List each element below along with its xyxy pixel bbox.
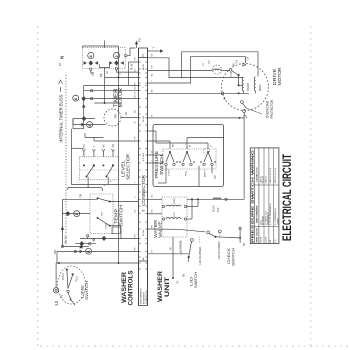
wire loop inner (148, 57, 246, 83)
internal timer buss (dotted line) (65, 75, 67, 246)
wire row 251.4 with contact B (57, 250, 139, 252)
temp switch outputs (110, 201, 139, 203)
svg-text:BU: BU (151, 194, 153, 197)
svg-text:BU 16: BU 16 (65, 236, 68, 243)
svg-text:BU-W: BU-W (130, 63, 133, 70)
svg-text:FULL: FULL (185, 170, 187, 176)
svg-text:N: N (141, 54, 145, 56)
line switch (dashed) (58, 266, 86, 304)
wire row 148.3 (72, 147, 84, 149)
svg-text:BU: BU (134, 209, 136, 212)
svg-text:PK: PK (170, 246, 172, 250)
level selector outputs down (87, 177, 89, 188)
wire arrow right of connector (148, 50, 161, 52)
svg-text:SWITCH: SWITCH (118, 205, 123, 226)
svg-text:16 GA: 16 GA (142, 229, 145, 236)
wire row y93.3 (148, 92, 250, 94)
svg-text:CAB 15, 22 & 32: CAB 15, 22 & 32 (269, 167, 272, 183)
svg-text:GY: GY (151, 249, 153, 253)
svg-text:BK: BK (99, 73, 103, 77)
overload protector contacts (241, 101, 244, 104)
svg-text:BA: BA (223, 96, 226, 100)
svg-text:IN WASHER: IN WASHER (142, 292, 145, 304)
svg-text:ELECTRICAL CIRCUIT: ELECTRICAL CIRCUIT (280, 153, 294, 241)
timer contact 6 (circled) (73, 95, 79, 101)
svg-text:LID CLOSED: LID CLOSED (217, 241, 221, 259)
svg-text:SWITCH: SWITCH (84, 281, 89, 300)
svg-text:SWITCH: SWITCH (159, 155, 164, 175)
wire row y117.9 (148, 117, 245, 119)
level selector stubs (83, 152, 85, 157)
svg-text:LID OPEN: LID OPEN (178, 241, 182, 254)
svg-text:INTERNAL TIMER BUSS: INTERNAL TIMER BUSS (59, 95, 64, 143)
svg-text:K 8 15 B: K 8 15 B (143, 152, 145, 161)
svg-text:PU: PU (275, 239, 277, 242)
svg-text:CAB 14,: CAB 14, (264, 175, 267, 183)
wire loop outer (181, 52, 258, 77)
svg-text:BU: BU (151, 73, 153, 76)
connector bottom label box (139, 261, 148, 306)
svg-text:TERMINALS): TERMINALS) (267, 212, 270, 225)
suds feed wire (187, 198, 244, 200)
suds solenoid (213, 198, 221, 199)
svg-text:RD: RD (134, 234, 136, 238)
svg-text:BK: BK (69, 297, 72, 301)
svg-text:3-CUP: 3-CUP (168, 169, 170, 176)
lid switch pivots (207, 231, 210, 234)
svg-text:LID: LID (190, 276, 194, 286)
svg-text:SWITCH: SWITCH (194, 272, 198, 288)
wires rails to pressure box (148, 154, 164, 156)
check wire right (216, 237, 241, 238)
valve outputs right (187, 206, 198, 208)
start winding (242, 77, 243, 91)
svg-text:WIRE COLOR: WIRE COLOR (257, 228, 259, 243)
terminal under cam 4 (90, 68, 92, 70)
level selector box (dotted) (80, 157, 119, 180)
svg-text:8: 8 (142, 210, 146, 212)
wire row y72.1 (116, 70, 138, 72)
svg-text:BU-W: BU-W (134, 91, 136, 98)
connector top box (139, 48, 148, 58)
wire row y124.6 to timer motor (73, 124, 106, 126)
pressure switch enclosure (153, 124, 224, 186)
svg-text:BU-W: BU-W (143, 64, 145, 70)
motor internal node (238, 84, 240, 86)
svg-text:GY: GY (117, 71, 121, 75)
svg-text:BK: BK (243, 242, 246, 246)
svg-text:RD: RD (93, 238, 96, 242)
wire row y103 (94, 102, 118, 104)
svg-text:COLD: COLD (174, 198, 176, 204)
svg-text:MAIN: MAIN (258, 84, 262, 91)
svg-text:PK: PK (83, 144, 86, 148)
svg-text:BU-W: BU-W (265, 237, 267, 243)
svg-text:B: B (87, 250, 91, 253)
svg-text:PU: PU (138, 38, 142, 42)
wire row y62 (129, 61, 139, 63)
svg-text:GY: GY (151, 150, 153, 154)
pressure micro circle (203, 148, 209, 154)
lid switch 1 (191, 239, 194, 242)
wire cam4 down (90, 71, 92, 74)
wire from overload down (243, 112, 245, 199)
svg-text:SUDS: SUDS (213, 205, 216, 212)
svg-text:RD-W: RD-W (260, 237, 262, 243)
svg-text:PROTECTOR: PROTECTOR (270, 99, 274, 118)
vertical cam wire x83.7 (83, 86, 85, 129)
svg-text:6 (TO 10 TERMINALS): 6 (TO 10 TERMINALS) (269, 203, 272, 225)
cam follower row 124.6 (81, 123, 85, 127)
timer cam 2 (114, 60, 119, 65)
fork wire (100, 65, 110, 68)
svg-text:BR-W/BR: BR-W/BR (263, 215, 265, 225)
svg-text:L1: L1 (53, 300, 58, 305)
terminal under cam 2 (115, 67, 117, 69)
svg-text:HOT: HOT (174, 211, 176, 216)
svg-text:WIRE NUMBERS: WIRE NUMBERS (257, 205, 259, 223)
svg-text:RD: RD (151, 209, 153, 213)
svg-text:CONTROLS: CONTROLS (128, 270, 135, 306)
svg-text:SELECTOR: SELECTOR (126, 153, 131, 180)
svg-text:LID CLOSED: LID CLOSED (198, 247, 202, 265)
cold solenoid (162, 205, 164, 207)
wire to connector pin (arrow) (127, 48, 136, 56)
svg-text:CONN BLOCK: CONN BLOCK (146, 290, 148, 304)
wire row y199.3 (valve feed) (148, 198, 163, 200)
wire row y98.6 with terminal (86, 98, 139, 100)
svg-text:Y: Y (151, 47, 155, 49)
cam follower on x83.7 (82, 104, 86, 108)
dotted guides lid switch (180, 240, 182, 256)
svg-text:VLV: VLV (217, 207, 220, 212)
main vertical wire (118, 46, 120, 263)
temp switch contacts (97, 197, 99, 199)
svg-text:BK: BK (53, 250, 57, 254)
wire row y77.4 (105, 76, 139, 78)
svg-text:16 GA: 16 GA (142, 115, 145, 122)
svg-text:MOTOR: MOTOR (277, 67, 282, 86)
svg-text:GY: GY (176, 280, 179, 284)
svg-text:PRESSURE SWITCH WIRING: PRESSURE SWITCH WIRING (251, 149, 255, 243)
terminal right of contact 2 (125, 55, 127, 57)
water valve box (dotted) (162, 197, 187, 237)
line switch contacts (66, 269, 68, 271)
svg-text:COLD: COLD (105, 223, 107, 229)
svg-text:OR: OR (151, 65, 153, 69)
svg-text:CHECK: CHECK (227, 247, 231, 264)
thermo element box (112, 227, 121, 233)
svg-text:PULL: PULL (76, 275, 79, 282)
elbow wire to row y128.7 (73, 128, 84, 130)
svg-text:BK: BK (183, 273, 186, 277)
wiring legend table (250, 148, 279, 244)
svg-text:EMPTY: EMPTY (204, 169, 206, 177)
hot solenoid (162, 218, 164, 220)
svg-text:CCW: CCW (231, 71, 233, 77)
timer cam 6 (81, 96, 86, 101)
valve left feeds (148, 213, 163, 215)
timer cam 4 (89, 60, 94, 65)
temp switch box (dotted) (90, 194, 113, 233)
contact 4 (circled) (88, 53, 94, 59)
vertical wire x62.4 (61, 199, 63, 246)
svg-text:THB 10, 24 & 34: THB 10, 24 & 34 (275, 167, 277, 183)
svg-text:SWITCH: SWITCH (232, 248, 236, 266)
wire stub (104, 41, 106, 48)
thermal protector (dashed circle) (213, 65, 222, 74)
pressure switch feeds (148, 140, 171, 142)
timer contact 8 (circled) (87, 122, 93, 128)
wire timer motor to connector (121, 117, 139, 119)
svg-text:CONNECTOR: CONNECTOR (141, 175, 146, 206)
wire U loop bottom (68, 188, 103, 192)
wire row 238.6 (80, 238, 139, 240)
timer contact 1 (circled) (74, 211, 80, 217)
cam follower x62.4 (61, 226, 65, 230)
pressure outputs (165, 166, 167, 183)
wire row 184.6 (72, 184, 139, 186)
wire to speed contact (222, 69, 230, 71)
wire row 243.7 (75, 243, 96, 245)
wire row y85.5 (84, 85, 139, 87)
svg-text:BK: BK (125, 111, 128, 115)
wire row 137.5 (85, 137, 103, 139)
svg-text:HOT: HOT (101, 211, 103, 216)
svg-text:1M: 1M (208, 61, 211, 64)
pressure contact groups (169, 151, 171, 153)
svg-text:TM: TM (113, 114, 117, 119)
pressure switch box (dotted) (163, 149, 216, 169)
svg-text:OR: OR (134, 57, 136, 61)
svg-text:UNIT: UNIT (164, 277, 171, 297)
svg-text:PUSH: PUSH (62, 273, 65, 280)
wire left loop x71.5 (71, 129, 73, 185)
contact arrow (243, 63, 246, 66)
wire row 141 (94, 140, 139, 142)
svg-text:OVERLOAD: OVERLOAD (265, 100, 269, 118)
buss arrow (60, 87, 62, 92)
L1 terminal (53, 288, 58, 293)
svg-text:4B: 4B (60, 295, 63, 298)
wire row y70.4 with protector coil (148, 69, 213, 71)
svg-text:START: START (246, 82, 250, 91)
wire row y90.7 with terminal (84, 90, 139, 92)
wire to lid switch (148, 229, 206, 232)
speed contact arm (232, 71, 239, 75)
connector rail right (147, 48, 149, 306)
timer contact box (dotted) (83, 48, 126, 69)
wire row 213.6 with timer contact 1 (62, 213, 90, 215)
svg-text:CONNECT TO: CONNECT TO (257, 167, 259, 182)
svg-text:MAIN HARNESS: MAIN HARNESS (140, 288, 143, 304)
svg-text:BK: BK (234, 62, 236, 66)
connector rail left (138, 48, 140, 306)
main winding (254, 77, 255, 91)
svg-text:BU: BU (134, 68, 136, 71)
second vertical wire (128, 62, 130, 86)
svg-text:BK: BK (103, 144, 106, 148)
connector pin ticks (139, 61, 141, 63)
svg-text:RD: RD (214, 175, 217, 179)
wire top feed (83, 45, 119, 47)
vertical from valve x173 (172, 237, 174, 278)
svg-text:MOTOR: MOTOR (118, 88, 124, 107)
drive motor (dashed circle) (222, 64, 269, 111)
svg-text:GY: GY (235, 60, 238, 64)
contact 2 (circled) (113, 53, 119, 59)
level selector contacts (83, 164, 85, 166)
svg-text:N: N (60, 56, 65, 59)
wire net from pin to start winding (148, 58, 244, 78)
wire row 246.4 (62, 245, 88, 247)
svg-text:SA 8.3V: SA 8.3V (262, 175, 265, 183)
main feed wire y263 (56, 262, 138, 264)
wire row 199.3 into temp switch (62, 198, 97, 200)
cam diamond row 118.6 (82, 116, 87, 121)
timer motor (dashed circle) (104, 109, 121, 126)
svg-text:BU-W: BU-W (134, 83, 136, 90)
svg-text:OR: OR (112, 144, 115, 148)
